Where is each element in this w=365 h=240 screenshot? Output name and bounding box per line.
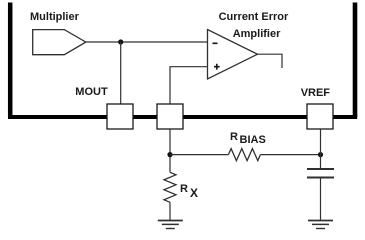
capacitor (on VREF) [307, 169, 334, 178]
svg-text:VREF: VREF [301, 87, 331, 99]
svg-text:X: X [190, 186, 198, 200]
node: junction left (RX / RBIAS) [167, 152, 172, 157]
svg-text:BIAS: BIAS [240, 134, 266, 146]
node: junction multiplier/MOUT [118, 39, 123, 44]
svg-text:MOUT: MOUT [75, 86, 108, 98]
IC block border left [8, 3, 13, 118]
wire: middle pin down to node [169, 129, 171, 172]
pin VREF box [307, 104, 333, 129]
node: junction right (VREF / cap) [318, 152, 323, 157]
wire: op-amp noninverting input from middle pin [170, 67, 207, 104]
op-amp plus sign [214, 64, 220, 70]
wire: VREF pin down through node to capacitor [320, 129, 322, 169]
wire: node to RBIAS left [170, 154, 228, 156]
svg-text:Amplifier: Amplifier [233, 28, 281, 40]
op-amp U1 current error amplifier [208, 30, 258, 80]
wire: RX to ground [169, 202, 171, 220]
svg-text:Current Error: Current Error [219, 11, 289, 23]
wire: RBIAS right to node [260, 154, 320, 156]
resistor RX [164, 172, 176, 202]
ground (under capacitor) [308, 221, 333, 229]
IC block border bottom [8, 115, 357, 119]
IC block border right [353, 3, 358, 118]
pin box (middle, unnamed) [157, 104, 183, 129]
pin MOUT box [107, 104, 133, 129]
svg-text:R: R [180, 183, 188, 195]
multiplier block symbol [33, 30, 86, 55]
wire: junction down to MOUT pin [120, 42, 122, 104]
wire: op-amp output [258, 54, 283, 68]
resistor RBIAS [228, 149, 260, 161]
svg-text:R: R [230, 131, 238, 143]
wire: capacitor to ground [320, 178, 322, 220]
wire: multiplier output to op-amp inverting input [86, 41, 207, 43]
svg-text:Multiplier: Multiplier [30, 11, 80, 23]
ground (under RX) [158, 221, 183, 229]
op-amp minus sign [213, 42, 218, 44]
